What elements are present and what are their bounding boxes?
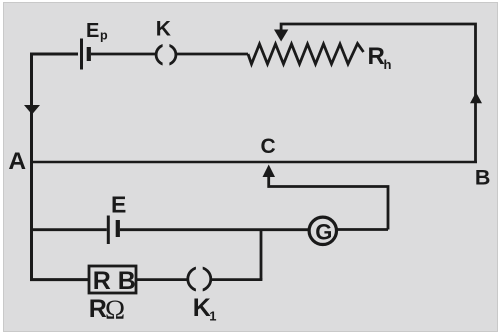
svg-text:K: K (193, 294, 211, 322)
svg-text:R: R (368, 43, 385, 70)
svg-text:C: C (261, 135, 276, 158)
svg-text:E: E (86, 20, 99, 42)
svg-text:G: G (315, 220, 332, 245)
svg-text:E: E (111, 192, 126, 218)
svg-text:p: p (100, 29, 108, 43)
svg-text:1: 1 (209, 308, 216, 323)
svg-text:K: K (156, 18, 171, 41)
svg-text:A: A (8, 148, 26, 175)
svg-text:Ω: Ω (105, 294, 125, 324)
svg-text:h: h (384, 57, 392, 72)
svg-text:R: R (93, 267, 111, 295)
svg-text:B: B (118, 267, 136, 295)
svg-text:B: B (475, 166, 491, 190)
